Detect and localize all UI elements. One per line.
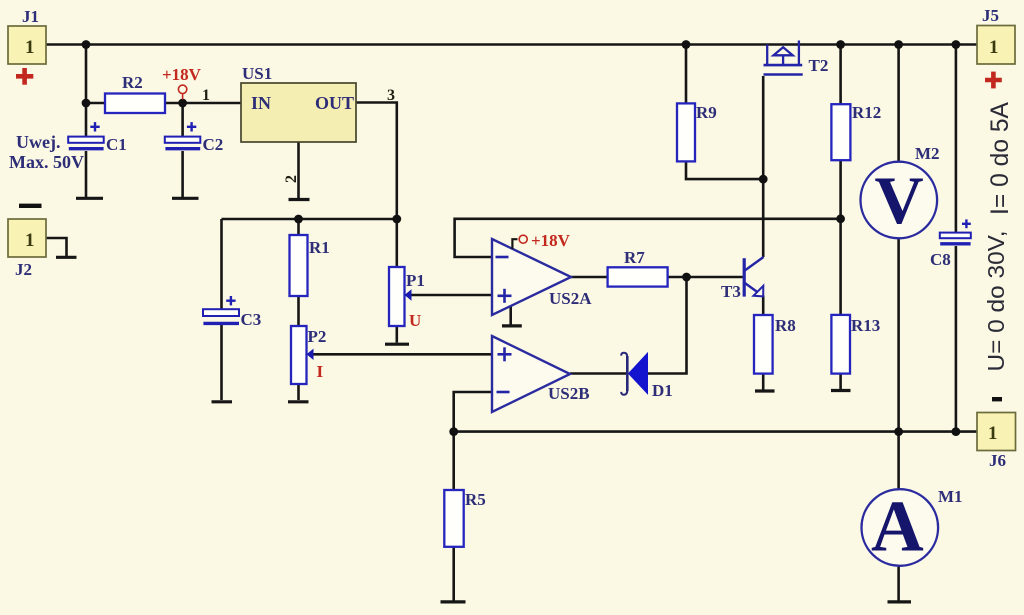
node M1 top rail: [894, 427, 903, 436]
wire T2 gate lead down to T3 collector: [762, 76, 765, 257]
US2A +18V power pin: [512, 235, 527, 249]
svg-text:R5: R5: [465, 490, 486, 509]
ground under R13: [831, 389, 851, 392]
op-amp US2B: [492, 336, 570, 412]
resistor R5: [444, 490, 463, 547]
svg-text:1: 1: [25, 230, 35, 251]
ground at US2A V- pin: [502, 307, 522, 326]
wire R1 top lead: [297, 219, 300, 235]
svg-text:C3: C3: [241, 310, 262, 329]
transistor T2: [764, 41, 803, 75]
wire C3 to ground: [220, 325, 223, 400]
svg-text:1: 1: [988, 423, 998, 444]
node C8 bottom rail: [952, 427, 961, 436]
wire R5 top lead: [452, 432, 455, 490]
node feedback-R12-R13: [836, 214, 845, 223]
svg-text:+18V: +18V: [531, 231, 571, 250]
wire R5 to ground: [452, 547, 455, 601]
svg-text:J5: J5: [982, 6, 999, 25]
wire J2 pin to ground: [46, 238, 67, 256]
svg-text:U= 0 do 30V,: U= 0 do 30V,: [983, 231, 1009, 372]
svg-text:IN: IN: [251, 93, 271, 113]
ammeter M1: [862, 486, 939, 567]
svg-text:P1: P1: [406, 271, 425, 290]
svg-text:R9: R9: [696, 103, 717, 122]
wire R9 bottom to T2 gate node: [686, 161, 763, 179]
wire R7 node down to D1 anode: [648, 277, 687, 374]
wire US2A output to R7: [571, 276, 608, 279]
wire M2 top lead: [897, 45, 900, 162]
ground at J2: [56, 256, 77, 259]
wire R12 top lead: [839, 45, 842, 105]
node +18V net: [178, 99, 187, 108]
wire US2B minus input to bottom rail: [454, 392, 492, 432]
svg-text:I= 0 do 5A: I= 0 do 5A: [986, 102, 1014, 215]
svg-text:M1: M1: [938, 487, 963, 506]
capacitor C8: [940, 219, 971, 243]
wire R7 to T3 base: [668, 276, 743, 279]
wire R2 left lead: [86, 102, 105, 105]
transistor T3: [744, 257, 763, 297]
connector J5: [977, 26, 1015, 65]
wire M1 to ground: [897, 566, 900, 601]
svg-text:Max. 50V: Max. 50V: [9, 152, 84, 172]
wire T3 emitter to R8: [762, 296, 765, 316]
node C8 top: [952, 40, 961, 49]
ground under M1: [888, 600, 912, 603]
svg-text:2: 2: [283, 175, 300, 183]
capacitor C2: [165, 122, 201, 149]
voltmeter M2: [861, 162, 938, 239]
svg-text:R2: R2: [122, 73, 143, 92]
regulator US1: [241, 83, 356, 142]
svg-text:Uwej.: Uwej.: [16, 132, 60, 152]
wire R9 top lead: [685, 45, 688, 104]
wire US2B output to D1 cathode: [570, 372, 627, 375]
resistor R2: [105, 94, 165, 114]
svg-text:R8: R8: [775, 316, 796, 335]
svg-text:T3: T3: [721, 282, 741, 301]
svg-text:D1: D1: [652, 381, 673, 400]
wire US1 pin3 out: [356, 103, 397, 220]
wire C2 to ground: [181, 151, 184, 197]
wire R12 bottom to R13 top: [839, 160, 842, 315]
node R9-gate-collector: [759, 175, 768, 184]
node +18V power terminal: [178, 85, 186, 99]
potentiometer P1: [389, 267, 412, 326]
svg-text:R12: R12: [852, 103, 881, 122]
wire R8 to ground: [762, 374, 765, 390]
J1 plus terminal mark: [16, 68, 33, 85]
wire M2 bottom lead: [897, 238, 900, 431]
node OUT-P1: [392, 215, 401, 224]
wire P1 wiper to US2A plus input: [411, 294, 493, 297]
wire P2 bottom to ground: [297, 384, 300, 400]
resistor R13: [831, 315, 850, 374]
ground under P2: [288, 400, 309, 403]
svg-text:R1: R1: [309, 238, 330, 257]
svg-text:C1: C1: [106, 135, 127, 154]
node R12 top: [836, 40, 845, 49]
ground under R5: [441, 600, 466, 603]
ground under C2: [172, 197, 199, 200]
ground under US1 pin2: [289, 198, 310, 201]
wire top rail J1 to J5: [46, 43, 977, 46]
wire R1 to P2: [297, 296, 300, 326]
svg-text:US2A: US2A: [549, 289, 592, 308]
wire bottom rail to J6: [454, 430, 977, 433]
node US2B minus bottom rail: [449, 427, 458, 436]
resistor R12: [831, 104, 850, 160]
connector J6: [977, 413, 1016, 451]
wire P2 wiper to US2B plus input: [313, 353, 492, 356]
wire C8 top lead: [955, 45, 958, 234]
wire US2A minus input feedback: [455, 219, 841, 257]
connector J1: [8, 26, 46, 64]
svg-text:I: I: [317, 362, 324, 381]
wire C3 top lead: [220, 219, 223, 309]
ground under P1: [385, 343, 409, 346]
resistor R7: [608, 267, 668, 286]
J5 plus terminal mark: [985, 72, 1002, 89]
svg-text:+18V: +18V: [162, 65, 202, 84]
capacitor C3: [203, 296, 239, 323]
node R2-C1: [82, 99, 91, 108]
node J1 branch: [82, 40, 91, 49]
ground under R8: [755, 389, 775, 392]
ground under C1: [76, 197, 103, 200]
svg-text:T2: T2: [809, 56, 829, 75]
svg-text:R7: R7: [624, 248, 645, 267]
svg-text:A: A: [871, 486, 924, 567]
capacitor C1: [68, 122, 104, 149]
svg-text:J1: J1: [22, 7, 39, 26]
node R9 top: [682, 40, 691, 49]
resistor R8: [754, 315, 773, 374]
wire mid rail C3 to P1: [222, 218, 397, 221]
wire P1 top lead: [395, 219, 398, 267]
resistor R1: [290, 235, 308, 296]
svg-text:M2: M2: [915, 144, 940, 163]
diode D1: [621, 353, 647, 395]
wire US1 pin2 down: [297, 142, 300, 198]
wire J1 branch down to C1: [85, 45, 88, 138]
svg-text:J6: J6: [989, 451, 1006, 470]
svg-text:J2: J2: [15, 260, 32, 279]
resistor R9: [677, 103, 695, 161]
connector J2: [8, 219, 46, 257]
svg-text:1: 1: [25, 37, 35, 58]
wire R2 right lead to US1 IN: [165, 102, 241, 105]
svg-text:U: U: [409, 311, 421, 330]
svg-text:P2: P2: [308, 327, 327, 346]
wire C1 to ground: [85, 151, 88, 197]
wire C8 bottom lead: [955, 246, 958, 432]
op-amp US2A: [492, 239, 571, 315]
wire M1 top lead: [897, 432, 900, 490]
J6 minus terminal mark: [992, 397, 1002, 401]
node M2 top: [894, 40, 903, 49]
svg-text:US2B: US2B: [548, 384, 590, 403]
wire R13 to ground: [839, 374, 842, 389]
svg-text:US1: US1: [242, 64, 272, 83]
svg-text:3: 3: [387, 87, 395, 104]
J2 minus terminal mark: [19, 204, 42, 208]
node R7 output: [682, 273, 691, 282]
wire C2 top lead: [181, 103, 184, 137]
svg-text:OUT: OUT: [315, 93, 354, 113]
svg-text:C2: C2: [203, 135, 224, 154]
svg-text:C8: C8: [930, 250, 951, 269]
svg-text:1: 1: [989, 37, 999, 58]
node R1 top: [294, 215, 303, 224]
ground under C3: [212, 400, 233, 403]
svg-text:1: 1: [202, 87, 210, 104]
svg-text:R13: R13: [851, 316, 880, 335]
wire P1 bottom to ground: [395, 326, 398, 343]
svg-text:V: V: [875, 162, 924, 238]
potentiometer P2: [291, 326, 314, 384]
